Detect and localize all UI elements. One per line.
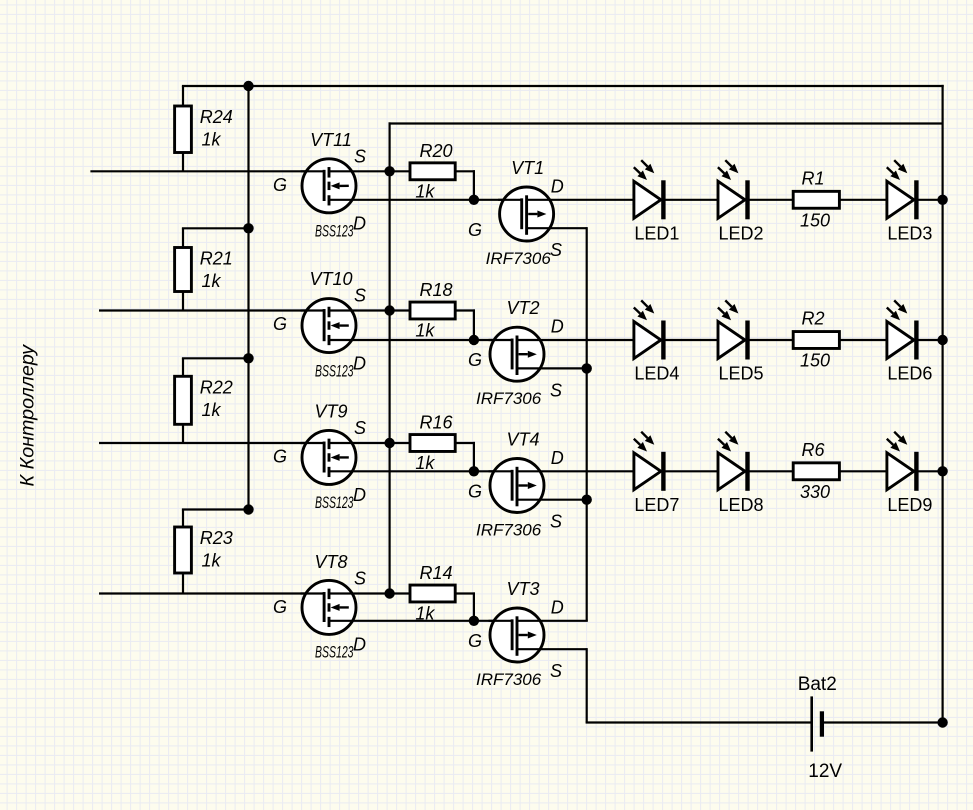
resistor R1 150 (793, 168, 839, 230)
junction source bus row 4 (384, 588, 394, 598)
svg-text:LED9: LED9 (887, 495, 932, 515)
svg-text:1k: 1k (415, 604, 435, 624)
junction gate node row 1 (469, 195, 479, 205)
wire controller input row 1 (90, 170, 325, 172)
svg-text:LED6: LED6 (887, 364, 932, 384)
LED LED5 (718, 300, 764, 383)
wire VT3 source to battery vertical (586, 648, 588, 722)
svg-text:LED3: LED3 (887, 223, 932, 243)
svg-text:1k: 1k (415, 321, 435, 341)
svg-text:1k: 1k (415, 453, 435, 473)
svg-text:LED8: LED8 (719, 495, 764, 515)
junction gate node row 4 (469, 616, 479, 626)
svg-text:D: D (551, 317, 564, 337)
svg-text:1k: 1k (202, 271, 222, 291)
transistor VT11 BSS123 (273, 130, 523, 241)
wire battery row left (586, 721, 811, 723)
svg-text:S: S (354, 146, 366, 166)
svg-text:D: D (353, 634, 366, 654)
svg-text:G: G (468, 350, 482, 370)
junction source bus row 2 (384, 305, 394, 315)
svg-text:1k: 1k (202, 130, 222, 150)
wire left bus R21-R23 tops (247, 86, 249, 510)
wire top horizontal bus (182, 85, 944, 87)
junction top bus / left bus (243, 81, 253, 91)
resistor R21 1k (175, 228, 249, 310)
transistor VT3 IRF7306 (468, 579, 588, 689)
svg-text:S: S (550, 512, 562, 532)
LED LED9 (887, 432, 933, 515)
junction gate node row 3 (469, 466, 479, 476)
wire BSS source vertical bus (389, 122, 391, 593)
transistor VT9 BSS123 (273, 402, 513, 512)
svg-text:IRF7306: IRF7306 (476, 389, 542, 408)
svg-text:LED4: LED4 (634, 364, 679, 384)
svg-text:D: D (353, 354, 366, 374)
wire right vertical bus (941, 85, 943, 723)
transistor VT2 IRF7306 (468, 298, 943, 408)
junction VT2 source (582, 363, 592, 373)
svg-text:D: D (353, 213, 366, 233)
LED LED3 (887, 160, 933, 243)
svg-text:IRF7306: IRF7306 (476, 520, 542, 539)
svg-text:VT4: VT4 (506, 429, 539, 449)
svg-text:G: G (273, 314, 287, 334)
resistor R2 150 (793, 309, 839, 371)
wire controller input row 3 (99, 442, 325, 444)
resistor R6 330 (793, 440, 839, 502)
svg-text:VT2: VT2 (506, 298, 539, 318)
battery Bat2 12V (798, 674, 843, 782)
svg-text:IRF7306: IRF7306 (486, 249, 552, 268)
resistor R14 1k (410, 563, 475, 624)
svg-text:150: 150 (800, 210, 830, 230)
LED LED8 (718, 432, 764, 515)
svg-text:LED1: LED1 (634, 223, 679, 243)
junction R21 top (243, 223, 253, 233)
transistor VT4 IRF7306 (468, 429, 943, 539)
wire IRF source vertical bus (586, 227, 588, 621)
LED LED7 (634, 432, 680, 515)
transistor VT1 IRF7306 (468, 158, 943, 268)
svg-text:BSS123: BSS123 (315, 362, 354, 381)
svg-text:R24: R24 (200, 107, 233, 127)
svg-text:R22: R22 (200, 377, 233, 397)
svg-text:К Контроллеру: К Контроллеру (18, 343, 39, 486)
transistor VT8 BSS123 (273, 552, 513, 661)
junction LED row 2 right bus (937, 335, 947, 345)
junction battery right bus (937, 717, 947, 727)
svg-text:D: D (353, 485, 366, 505)
svg-text:G: G (273, 175, 287, 195)
svg-text:D: D (551, 448, 564, 468)
svg-text:S: S (354, 286, 366, 306)
svg-text:1k: 1k (415, 182, 435, 202)
svg-text:G: G (468, 631, 482, 651)
svg-text:IRF7306: IRF7306 (476, 670, 542, 689)
svg-text:R6: R6 (801, 440, 825, 460)
svg-text:VT10: VT10 (309, 269, 352, 289)
resistor R22 1k (175, 358, 249, 443)
junction LED row 3 right bus (937, 466, 947, 476)
resistor R18 1k (410, 280, 475, 341)
svg-text:R23: R23 (200, 528, 233, 548)
svg-text:BSS123: BSS123 (315, 642, 354, 661)
svg-text:R16: R16 (420, 413, 454, 433)
resistor R16 1k (410, 413, 475, 474)
svg-text:S: S (354, 569, 366, 589)
junction LED row 1 right bus (937, 195, 947, 205)
LED LED1 (634, 160, 680, 243)
junction gate node row 2 (469, 335, 479, 345)
junction source bus row 3 (384, 438, 394, 448)
svg-text:LED7: LED7 (634, 495, 679, 515)
svg-text:VT11: VT11 (310, 130, 352, 150)
LED LED6 (887, 300, 933, 383)
svg-text:R20: R20 (420, 141, 453, 161)
junction R23 top (243, 504, 253, 514)
junction VT4 source (582, 495, 592, 505)
svg-text:R14: R14 (420, 563, 453, 583)
LED LED2 (718, 160, 764, 243)
svg-text:330: 330 (800, 482, 830, 502)
resistor R24 1k (175, 86, 233, 171)
svg-text:150: 150 (800, 351, 830, 371)
transistor VT10 BSS123 (273, 269, 513, 381)
junction R22 top (243, 353, 253, 363)
svg-text:12V: 12V (808, 761, 842, 782)
svg-text:LED2: LED2 (719, 223, 764, 243)
svg-text:D: D (551, 176, 564, 196)
wire controller input row 2 (99, 309, 325, 311)
svg-text:G: G (468, 481, 482, 501)
svg-text:1k: 1k (202, 400, 222, 420)
svg-text:D: D (551, 597, 564, 617)
svg-text:R18: R18 (420, 280, 453, 300)
junction source bus row 1 (384, 166, 394, 176)
svg-text:R1: R1 (801, 168, 824, 188)
resistor R20 1k (410, 141, 475, 202)
svg-text:R2: R2 (801, 309, 824, 329)
wire battery row right (823, 721, 942, 723)
svg-text:G: G (468, 220, 482, 240)
svg-text:S: S (550, 661, 562, 681)
svg-text:BSS123: BSS123 (315, 493, 354, 512)
svg-text:S: S (550, 380, 562, 400)
svg-text:G: G (273, 597, 287, 617)
svg-text:S: S (354, 418, 366, 438)
svg-text:BSS123: BSS123 (315, 221, 354, 240)
svg-text:VT8: VT8 (314, 552, 347, 572)
svg-text:1k: 1k (202, 551, 222, 571)
svg-text:LED5: LED5 (719, 364, 764, 384)
svg-text:Bat2: Bat2 (798, 674, 837, 695)
wire BSS source bus top segment (389, 122, 943, 124)
svg-text:VT3: VT3 (506, 579, 539, 599)
svg-text:S: S (550, 240, 562, 260)
wire controller input row 4 (99, 592, 325, 594)
svg-text:VT9: VT9 (314, 402, 347, 422)
svg-text:R21: R21 (200, 249, 233, 269)
svg-text:VT1: VT1 (511, 158, 544, 178)
svg-text:G: G (273, 447, 287, 467)
LED LED4 (634, 300, 680, 383)
resistor R23 1k (175, 510, 249, 594)
